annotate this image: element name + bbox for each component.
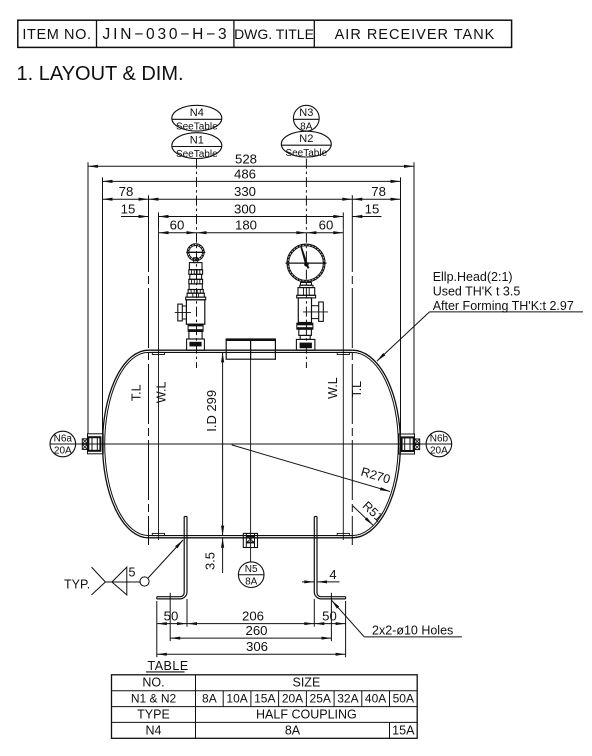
svg-text:50: 50 [164, 609, 179, 624]
svg-text:After Forming TH'K:t 2.97: After Forming TH'K:t 2.97 [433, 299, 574, 313]
svg-text:486: 486 [234, 166, 256, 181]
svg-text:Used TH'K t 3.5: Used TH'K t 3.5 [433, 285, 521, 299]
svg-text:SIZE: SIZE [293, 676, 321, 690]
svg-text:78: 78 [119, 184, 134, 199]
svg-text:32A: 32A [337, 692, 358, 706]
svg-text:20A: 20A [54, 446, 72, 457]
svg-text:15: 15 [365, 202, 380, 217]
svg-text:8A: 8A [245, 576, 258, 587]
svg-text:4: 4 [329, 567, 336, 582]
svg-text:50: 50 [322, 609, 337, 624]
svg-text:TYP.: TYP. [64, 578, 90, 592]
svg-text:10A: 10A [226, 692, 247, 706]
svg-text:Ellp.Head(2:1): Ellp.Head(2:1) [433, 270, 513, 284]
svg-text:1. LAYOUT & DIM.: 1. LAYOUT & DIM. [17, 63, 184, 85]
svg-text:N5: N5 [245, 564, 258, 575]
svg-text:78: 78 [371, 184, 386, 199]
svg-text:N2: N2 [299, 133, 313, 145]
svg-text:2x2-ø10 Holes: 2x2-ø10 Holes [372, 623, 453, 637]
svg-text:15A: 15A [392, 723, 415, 737]
svg-text:SeeTable: SeeTable [285, 148, 327, 159]
svg-text:20A: 20A [430, 446, 448, 457]
svg-text:40A: 40A [365, 692, 386, 706]
svg-text:N4: N4 [146, 723, 162, 737]
svg-text:180: 180 [235, 218, 257, 233]
svg-text:8A: 8A [202, 692, 217, 706]
svg-text:JIN−030−H−3: JIN−030−H−3 [103, 26, 230, 43]
svg-text:528: 528 [235, 151, 257, 166]
svg-text:15A: 15A [254, 692, 275, 706]
svg-text:50A: 50A [393, 692, 414, 706]
svg-text:8A: 8A [285, 723, 301, 737]
svg-text:TYPE: TYPE [137, 707, 170, 721]
svg-text:N3: N3 [299, 107, 313, 119]
svg-text:N6b: N6b [430, 433, 449, 444]
svg-text:W.L: W.L [155, 381, 169, 403]
svg-text:260: 260 [245, 623, 267, 638]
svg-text:AIR RECEIVER TANK: AIR RECEIVER TANK [335, 27, 496, 43]
svg-text:3.5: 3.5 [203, 552, 218, 570]
svg-text:HALF COUPLING: HALF COUPLING [256, 707, 357, 721]
svg-text:W.L: W.L [326, 377, 340, 399]
svg-text:ITEM NO.: ITEM NO. [22, 27, 91, 43]
svg-text:SeeTable: SeeTable [176, 149, 218, 160]
svg-text:206: 206 [242, 609, 264, 624]
svg-text:NO.: NO. [142, 676, 164, 690]
svg-text:N6a: N6a [54, 433, 73, 444]
svg-text:T.L: T.L [350, 381, 364, 398]
svg-text:DWG. TITLE: DWG. TITLE [234, 26, 314, 42]
svg-text:I.D 299: I.D 299 [204, 390, 219, 432]
svg-text:306: 306 [246, 639, 268, 654]
svg-text:60: 60 [170, 218, 185, 233]
svg-text:300: 300 [234, 202, 256, 217]
svg-text:N4: N4 [190, 107, 204, 119]
svg-text:T.L: T.L [130, 384, 144, 401]
svg-text:N1 & N2: N1 & N2 [131, 692, 177, 706]
svg-text:20A: 20A [282, 692, 303, 706]
svg-text:60: 60 [319, 218, 334, 233]
svg-text:5: 5 [129, 565, 136, 579]
svg-text:N1: N1 [190, 134, 204, 146]
svg-text:15: 15 [121, 202, 136, 217]
svg-text:TABLE: TABLE [148, 659, 189, 673]
svg-text:330: 330 [234, 184, 256, 199]
svg-text:SeeTable: SeeTable [176, 122, 218, 133]
svg-text:25A: 25A [310, 692, 331, 706]
